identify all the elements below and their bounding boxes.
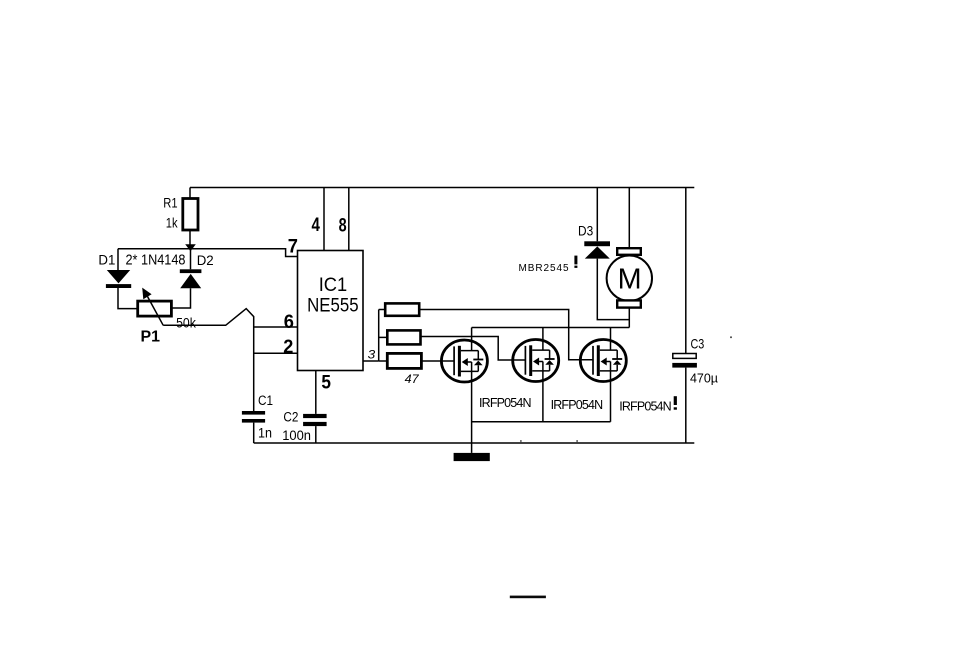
svg-text:4: 4: [312, 214, 321, 236]
svg-text:47: 47: [405, 372, 420, 386]
svg-text:100n: 100n: [282, 428, 311, 443]
ground symbol: [454, 453, 490, 461]
svg-text:2* 1N4148: 2* 1N4148: [126, 252, 186, 269]
resistor R-mid 47: [387, 330, 420, 344]
wire: pin 3 output: [363, 360, 379, 362]
junction arrow at R1/D2 node: [185, 244, 196, 251]
potentiometer P1 body: [138, 301, 172, 316]
diode D1: [106, 270, 131, 288]
wire: R1 top lead: [189, 188, 191, 199]
wire: D1 top lead: [117, 249, 119, 271]
svg-text:C1: C1: [258, 393, 273, 408]
wire: pin 2: [254, 352, 298, 354]
svg-text:6: 6: [284, 311, 294, 333]
wire: wiper zigzag to pins 2/6 node: [163, 309, 254, 411]
motor M: [607, 248, 652, 307]
diode D2: [180, 269, 202, 288]
bottom separator bar: [510, 596, 546, 599]
svg-text:IRFP054N: IRFP054N: [619, 400, 672, 414]
transistor T2 (IRFP054N, N-MOSFET): [513, 340, 559, 382]
transistor T1 (IRFP054N, N-MOSFET): [441, 340, 487, 382]
svg-text:IRFP054N: IRFP054N: [551, 398, 604, 412]
wire: D3 bottom to motor bottom: [597, 259, 629, 320]
wire: ground bottom rail: [254, 442, 695, 444]
wire: T3 drain lead: [610, 328, 612, 351]
wire: C1 to ground rail: [253, 423, 255, 443]
wire: C2 to ground rail: [315, 426, 317, 443]
wire: pin 5: [315, 371, 317, 414]
svg-text:IC1: IC1: [319, 274, 348, 296]
wire: motor top lead: [628, 188, 630, 249]
svg-text:8: 8: [339, 215, 347, 237]
wire: pin 6: [254, 326, 298, 328]
svg-text:C3: C3: [691, 335, 705, 351]
wire: T1 drain lead: [471, 328, 473, 351]
svg-text:D3: D3: [578, 223, 593, 238]
wire: drain bus from motor: [472, 327, 630, 329]
wire: motor bottom to drain bus: [628, 308, 630, 328]
wire: C3 bottom lead: [685, 368, 687, 443]
svg-text:1k: 1k: [166, 215, 178, 230]
svg-text:5: 5: [321, 372, 331, 394]
resistor R1: [183, 199, 198, 231]
wire: source bus: [472, 421, 611, 423]
tick mark on rail 2: [576, 440, 577, 442]
resistor R-bottom 47: [387, 353, 421, 368]
wire: D1 bottom to pot left: [118, 288, 138, 309]
wire: pin 4: [323, 188, 325, 251]
wire: T3 source lead: [610, 362, 612, 422]
wire: R-mid to T2 gate: [421, 337, 526, 361]
svg-text:R1: R1: [163, 195, 177, 210]
svg-text:50k: 50k: [176, 315, 196, 330]
wire: R-bottom to T1 gate: [421, 360, 454, 362]
wire: pin 8: [348, 188, 350, 251]
wire: D2 bottom to pot right: [171, 288, 190, 308]
svg-text:2: 2: [283, 336, 293, 358]
wire: +supply top rail: [190, 187, 694, 189]
wire: T2 drain lead: [542, 328, 544, 351]
svg-text:M: M: [618, 264, 642, 296]
svg-text:P1: P1: [141, 328, 161, 345]
exclamation mark D3: [574, 256, 577, 265]
resistor R-top 47: [385, 303, 419, 315]
svg-text:470µ: 470µ: [690, 370, 718, 385]
svg-text:C2: C2: [283, 409, 298, 424]
capacitor C1: [242, 411, 265, 423]
wire: bus to R-bottom: [379, 360, 388, 362]
svg-text:7: 7: [288, 236, 298, 258]
wire: bus to R-mid: [379, 336, 388, 338]
wire: T2 source lead: [542, 362, 544, 422]
svg-text:3: 3: [368, 347, 376, 361]
wire: bus to R-top: [379, 309, 386, 311]
tick mark on rail 1: [520, 440, 521, 442]
svg-text:NE555: NE555: [307, 295, 359, 317]
svg-text:1n: 1n: [258, 426, 272, 441]
wire: T1 source to ground: [471, 362, 473, 453]
capacitor C2: [303, 414, 327, 426]
svg-text:D1: D1: [98, 253, 115, 268]
potentiometer P1 wiper arrow: [142, 288, 163, 326]
exclamation mark T3: [674, 396, 677, 405]
transistor T3 (IRFP054N, N-MOSFET): [580, 340, 626, 382]
capacitor C3 (polarized): [672, 354, 697, 368]
svg-text:IRFP054N: IRFP054N: [479, 396, 532, 410]
op IC1 NE555 body: [298, 251, 364, 371]
wire: D3 top lead: [596, 188, 598, 242]
wire: D2 top lead: [190, 249, 192, 270]
wire: R1 bottom lead: [189, 230, 191, 249]
wire: R-top to T3 gate: [419, 310, 593, 360]
svg-text:D2: D2: [197, 253, 214, 268]
wire: node to pin 7 (with step): [118, 249, 298, 257]
svg-text:MBR2545: MBR2545: [519, 263, 569, 274]
stray dot: [730, 336, 732, 338]
diode D3 MBR2545: [584, 241, 610, 258]
wire: C3 top lead: [685, 188, 687, 354]
wire: gate resistor bus: [378, 310, 380, 362]
